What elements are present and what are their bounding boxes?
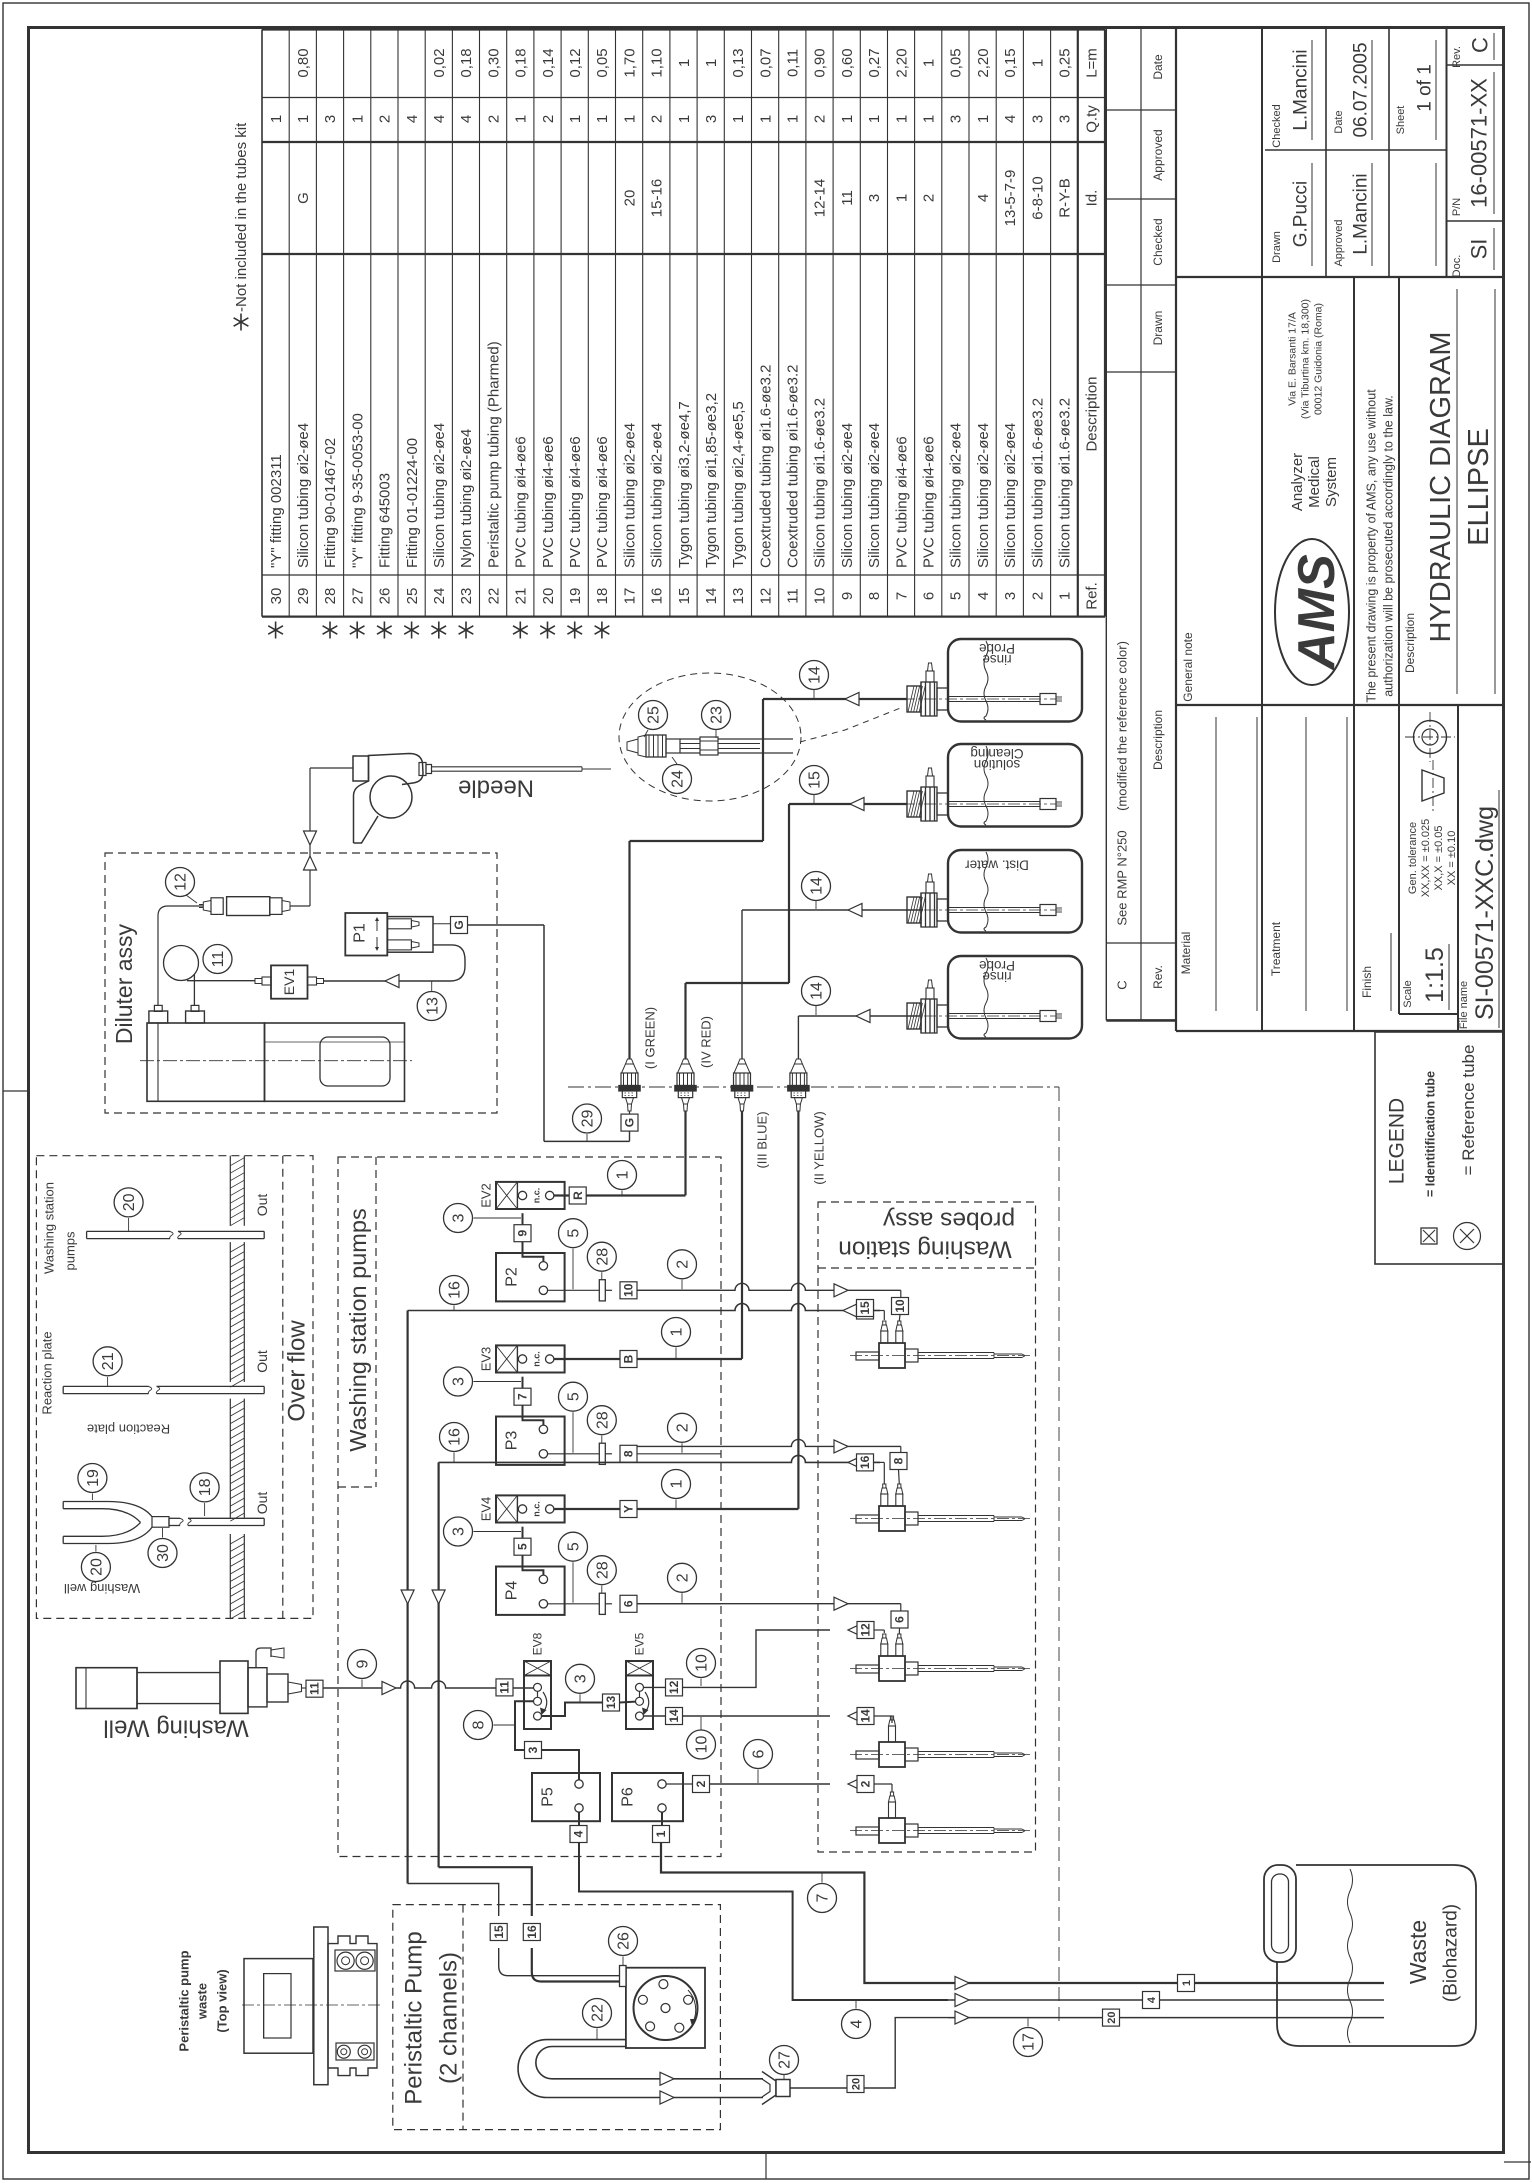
svg-text:6: 6 — [622, 1600, 636, 1607]
svg-text:Silicon tubing øi2-øe4: Silicon tubing øi2-øe4 — [431, 423, 448, 568]
svg-text:Scale: Scale — [1402, 980, 1414, 1008]
svg-text:2: 2 — [649, 115, 666, 123]
svg-text:18: 18 — [197, 1478, 214, 1496]
svg-text:2: 2 — [675, 1423, 692, 1432]
svg-text:0,15: 0,15 — [1002, 48, 1019, 77]
svg-text:PVC tubing øi4-øe6: PVC tubing øi4-øe6 — [594, 436, 611, 568]
svg-text:Silicon tubing øi2-øe4: Silicon tubing øi2-øe4 — [621, 423, 638, 568]
svg-text:28: 28 — [322, 588, 339, 605]
svg-text:00012 Guidonia (Roma): 00012 Guidonia (Roma) — [1313, 303, 1325, 415]
svg-text:Tygon tubing øi1,85-øe3,2: Tygon tubing øi1,85-øe3,2 — [703, 393, 720, 568]
svg-text:Silicon tubing øi2-øe4: Silicon tubing øi2-øe4 — [839, 423, 856, 568]
svg-text:Washing Well: Washing Well — [103, 1715, 248, 1742]
svg-text:General note: General note — [1181, 632, 1195, 702]
svg-text:20: 20 — [540, 588, 557, 605]
svg-text:Fitting 645003: Fitting 645003 — [377, 473, 394, 568]
svg-text:4: 4 — [572, 1830, 586, 1837]
svg-text:Silicon tubing øi2-øe4: Silicon tubing øi2-øe4 — [866, 423, 883, 568]
svg-text:26: 26 — [377, 588, 394, 605]
svg-text:21: 21 — [513, 588, 530, 605]
svg-text:n.c.: n.c. — [532, 1188, 542, 1204]
svg-text:12: 12 — [757, 588, 774, 605]
svg-text:(2 channels): (2 channels) — [435, 1952, 462, 2084]
svg-text:6: 6 — [893, 1616, 907, 1623]
svg-text:Id.: Id. — [1084, 190, 1101, 207]
svg-text:0,30: 0,30 — [485, 48, 502, 77]
svg-text:1: 1 — [654, 1830, 668, 1837]
svg-text:PVC tubing øi4-øe6: PVC tubing øi4-øe6 — [513, 436, 530, 568]
svg-text:rinse: rinse — [982, 652, 1011, 667]
svg-text:13-5-7-9: 13-5-7-9 — [1002, 170, 1019, 227]
svg-text:Silicon tubing øi2-øe4: Silicon tubing øi2-øe4 — [295, 423, 312, 568]
svg-text:10: 10 — [812, 588, 829, 605]
svg-text:Via E. Barsanti 17/A: Via E. Barsanti 17/A — [1287, 312, 1299, 406]
svg-text:30: 30 — [155, 1544, 172, 1562]
svg-text:20: 20 — [621, 190, 638, 207]
svg-text:2: 2 — [694, 1780, 708, 1787]
svg-text:1: 1 — [893, 115, 910, 123]
svg-text:"Y" fitting 002311: "Y" fitting 002311 — [268, 454, 285, 568]
svg-text:Fitting 90-01467-02: Fitting 90-01467-02 — [322, 438, 339, 568]
svg-text:(I GREEN): (I GREEN) — [643, 1007, 658, 1069]
svg-text:1: 1 — [513, 115, 530, 123]
svg-text:Coextruded tubing øi1.6-øe3.2: Coextruded tubing øi1.6-øe3.2 — [757, 365, 774, 568]
svg-text:29: 29 — [580, 1110, 597, 1128]
svg-text:1: 1 — [893, 194, 910, 202]
svg-text:(III BLUE): (III BLUE) — [755, 1111, 770, 1168]
svg-text:1: 1 — [757, 115, 774, 123]
svg-text:L=m: L=m — [1084, 48, 1101, 78]
svg-text:P5: P5 — [540, 1787, 557, 1807]
svg-text:Treatment: Treatment — [1269, 921, 1283, 976]
svg-text:Finish: Finish — [1360, 966, 1374, 998]
svg-text:10: 10 — [694, 1736, 711, 1754]
svg-text:0,80: 0,80 — [295, 48, 312, 77]
svg-text:1: 1 — [785, 115, 802, 123]
svg-text:Date: Date — [1333, 110, 1345, 133]
svg-text:(Biohazard): (Biohazard) — [1441, 1904, 1462, 2002]
svg-text:2,20: 2,20 — [893, 48, 910, 77]
svg-text:2: 2 — [540, 115, 557, 123]
svg-text:Gen. tolerance: Gen. tolerance — [1407, 822, 1419, 894]
svg-text:15: 15 — [492, 1925, 506, 1939]
svg-text:(IV RED): (IV RED) — [699, 1016, 714, 1068]
svg-text:Diluter assy: Diluter assy — [111, 923, 137, 1044]
svg-text:XX,XX = ±0.025: XX,XX = ±0.025 — [1420, 819, 1432, 898]
svg-text:1 of 1: 1 of 1 — [1415, 64, 1436, 112]
svg-text:P/N: P/N — [1451, 198, 1463, 216]
svg-text:Checked: Checked — [1151, 218, 1165, 265]
svg-text:Material: Material — [1179, 932, 1193, 975]
svg-text:Out: Out — [254, 1194, 270, 1217]
svg-text:1: 1 — [349, 115, 366, 123]
svg-text:2: 2 — [921, 194, 938, 202]
svg-text:XX = ±0.10: XX = ±0.10 — [1446, 831, 1458, 886]
svg-text:1: 1 — [975, 115, 992, 123]
svg-text:1: 1 — [621, 115, 638, 123]
svg-text:0,60: 0,60 — [839, 48, 856, 77]
svg-text:24: 24 — [431, 588, 448, 605]
svg-text:P3: P3 — [504, 1431, 521, 1451]
svg-text:2: 2 — [377, 115, 394, 123]
svg-text:1: 1 — [866, 115, 883, 123]
svg-text:Q.ty: Q.ty — [1084, 105, 1101, 133]
svg-text:14: 14 — [809, 877, 826, 895]
svg-text:L.Mancini: L.Mancini — [1351, 173, 1372, 254]
svg-text:1: 1 — [730, 115, 747, 123]
svg-text:13: 13 — [730, 588, 747, 605]
svg-text:3: 3 — [1002, 592, 1019, 600]
svg-text:= Reference tube: = Reference tube — [1459, 1045, 1478, 1176]
svg-text:Dist. water: Dist. water — [965, 857, 1029, 872]
svg-text:1:1.5: 1:1.5 — [1421, 947, 1449, 1003]
svg-text:20: 20 — [89, 1558, 106, 1576]
svg-text:6: 6 — [921, 592, 938, 600]
svg-text:3: 3 — [451, 1527, 468, 1536]
svg-text:0,25: 0,25 — [1057, 48, 1074, 77]
svg-text:0,18: 0,18 — [513, 48, 530, 77]
svg-text:PVC tubing øi4-øe6: PVC tubing øi4-øe6 — [540, 436, 557, 568]
svg-text:Needle: Needle — [458, 775, 534, 802]
svg-text:See RMP N°250: See RMP N°250 — [1115, 830, 1130, 925]
svg-text:17: 17 — [621, 588, 638, 605]
svg-text:14: 14 — [807, 666, 824, 684]
svg-text:L.Mancini: L.Mancini — [1291, 49, 1312, 130]
svg-text:P4: P4 — [504, 1581, 521, 1601]
svg-text:14: 14 — [667, 1709, 681, 1723]
svg-text:1: 1 — [295, 115, 312, 123]
svg-text:HYDRAULIC DIAGRAM: HYDRAULIC DIAGRAM — [1425, 332, 1457, 643]
svg-text:Y: Y — [622, 1505, 636, 1513]
svg-text:Approved: Approved — [1333, 219, 1345, 266]
svg-text:20: 20 — [850, 2078, 862, 2090]
svg-text:4: 4 — [1002, 115, 1019, 123]
svg-text:n.c.: n.c. — [532, 1501, 542, 1517]
svg-text:5: 5 — [566, 1542, 583, 1551]
svg-text:Silicon tubing øi2-øe4: Silicon tubing øi2-øe4 — [975, 423, 992, 568]
svg-text:AMS: AMS — [1288, 554, 1346, 672]
svg-text:14: 14 — [809, 982, 826, 1000]
svg-text:B: B — [622, 1354, 636, 1363]
svg-text:Ref.: Ref. — [1084, 582, 1101, 610]
svg-text:Nylon tubing øi2-øe4: Nylon tubing øi2-øe4 — [458, 429, 475, 568]
svg-text:3: 3 — [1029, 115, 1046, 123]
svg-text:authorization will be prosecut: authorization will be prosecuted accordi… — [1381, 395, 1395, 697]
svg-text:16: 16 — [858, 1455, 872, 1469]
svg-text:12: 12 — [859, 1623, 873, 1637]
svg-text:15: 15 — [807, 771, 824, 789]
svg-text:EV3: EV3 — [479, 1347, 494, 1372]
svg-text:1: 1 — [1181, 1980, 1193, 1986]
svg-text:1: 1 — [921, 115, 938, 123]
svg-text:12: 12 — [667, 1680, 681, 1694]
svg-text:5: 5 — [566, 1392, 583, 1401]
svg-text:25: 25 — [646, 706, 663, 724]
svg-text:10: 10 — [622, 1283, 636, 1297]
svg-text:Silicon tubing øi2-øe4: Silicon tubing øi2-øe4 — [948, 423, 965, 568]
svg-text:Washing station pumps: Washing station pumps — [345, 1208, 371, 1451]
svg-text:Tygon tubing øi2,4-øe5,5: Tygon tubing øi2,4-øe5,5 — [730, 401, 747, 568]
svg-text:13: 13 — [604, 1696, 618, 1710]
svg-text:4: 4 — [404, 115, 421, 123]
svg-text:27: 27 — [349, 588, 366, 605]
svg-text:(II YELLOW): (II YELLOW) — [812, 1111, 827, 1184]
svg-text:30: 30 — [268, 588, 285, 605]
svg-text:SI: SI — [1467, 239, 1492, 260]
svg-text:C: C — [1115, 980, 1130, 989]
svg-text:G.Pucci: G.Pucci — [1291, 181, 1312, 248]
svg-text:1: 1 — [567, 115, 584, 123]
svg-text:3: 3 — [322, 115, 339, 123]
svg-text:1: 1 — [676, 115, 693, 123]
svg-text:"Y" fitting 9-35-0053-00: "Y" fitting 9-35-0053-00 — [349, 413, 366, 568]
svg-text:C: C — [1468, 37, 1493, 53]
svg-text:Description: Description — [1151, 710, 1165, 770]
svg-text:The present drawing is propert: The present drawing is property of AMS, … — [1364, 389, 1378, 703]
svg-text:EV5: EV5 — [633, 1632, 647, 1655]
svg-text:Analyzer: Analyzer — [1289, 453, 1306, 511]
svg-text:1: 1 — [1057, 592, 1074, 600]
svg-text:4: 4 — [1146, 1996, 1158, 2003]
svg-text:3: 3 — [1057, 115, 1074, 123]
svg-text:EV2: EV2 — [479, 1183, 494, 1208]
svg-text:15: 15 — [676, 588, 693, 605]
svg-text:0,27: 0,27 — [866, 48, 883, 77]
svg-text:1: 1 — [703, 59, 720, 67]
svg-text:3: 3 — [451, 1213, 468, 1222]
svg-text:5: 5 — [948, 592, 965, 600]
svg-text:15-16: 15-16 — [649, 179, 666, 217]
svg-text:G: G — [623, 1118, 637, 1127]
svg-text:16-00571-XX: 16-00571-XX — [1467, 78, 1492, 208]
svg-text:R-Y-B: R-Y-B — [1057, 178, 1074, 217]
svg-text:3: 3 — [948, 115, 965, 123]
svg-text:26: 26 — [616, 1932, 633, 1950]
svg-text:0,13: 0,13 — [730, 48, 747, 77]
svg-text:14: 14 — [703, 588, 720, 605]
svg-text:27: 27 — [777, 2051, 794, 2069]
svg-text:Drawn: Drawn — [1271, 231, 1283, 263]
svg-text:11: 11 — [498, 1681, 512, 1694]
svg-text:Rev.: Rev. — [1151, 965, 1165, 989]
svg-text:P6: P6 — [620, 1787, 637, 1807]
svg-text:14: 14 — [859, 1709, 873, 1723]
svg-text:R: R — [571, 1191, 585, 1200]
svg-text:15: 15 — [858, 1301, 872, 1315]
svg-text:11: 11 — [839, 190, 856, 206]
svg-text:System: System — [1323, 457, 1340, 507]
svg-text:P2: P2 — [504, 1267, 521, 1287]
svg-text:G: G — [452, 920, 466, 929]
svg-text:Silicon tubing øi2-øe4: Silicon tubing øi2-øe4 — [1002, 423, 1019, 568]
svg-text:1: 1 — [1029, 59, 1046, 67]
svg-text:16: 16 — [447, 1428, 464, 1446]
svg-text:1,10: 1,10 — [649, 48, 666, 77]
svg-text:Approved: Approved — [1151, 129, 1165, 180]
svg-text:waste: waste — [195, 1983, 210, 2020]
svg-text:1: 1 — [669, 1327, 686, 1336]
svg-text:18: 18 — [594, 588, 611, 605]
svg-text:Rev.: Rev. — [1451, 46, 1463, 68]
svg-text:9: 9 — [516, 1230, 530, 1237]
svg-text:8: 8 — [892, 1457, 906, 1464]
svg-text:16: 16 — [447, 1281, 464, 1299]
svg-text:PVC tubing øi4-øe6: PVC tubing øi4-øe6 — [921, 436, 938, 568]
svg-text:XX,X = ±0.05: XX,X = ±0.05 — [1433, 825, 1445, 890]
svg-text:5: 5 — [566, 1229, 583, 1238]
svg-text:Peristaltic Pump: Peristaltic Pump — [400, 1931, 427, 2104]
svg-text:0,14: 0,14 — [540, 48, 557, 77]
svg-text:6-8-10: 6-8-10 — [1029, 176, 1046, 219]
svg-text:9: 9 — [355, 1659, 372, 1668]
svg-text:Out: Out — [254, 1350, 270, 1373]
svg-text:4: 4 — [458, 115, 475, 123]
svg-text:probes assy: probes assy — [882, 1206, 1015, 1233]
svg-text:19: 19 — [567, 588, 584, 605]
svg-text:Washing station: Washing station — [838, 1235, 1011, 1262]
svg-text:Doc.: Doc. — [1451, 255, 1463, 278]
svg-text:Reaction plate: Reaction plate — [87, 1422, 170, 1437]
svg-text:1: 1 — [268, 115, 285, 123]
svg-text:06.07.2005: 06.07.2005 — [1351, 42, 1372, 137]
svg-text:7: 7 — [815, 1893, 832, 1902]
svg-text:0,05: 0,05 — [594, 48, 611, 77]
svg-text:ELLIPSE: ELLIPSE — [1463, 428, 1495, 546]
svg-text:25: 25 — [404, 588, 421, 605]
svg-text:3: 3 — [703, 115, 720, 123]
svg-text:Description: Description — [1084, 376, 1101, 451]
svg-text:PVC tubing øi4-øe6: PVC tubing øi4-øe6 — [567, 436, 584, 568]
svg-text:8: 8 — [471, 1720, 488, 1729]
svg-text:8: 8 — [866, 592, 883, 600]
svg-text:Out: Out — [254, 1492, 270, 1515]
svg-text:0,11: 0,11 — [785, 49, 802, 77]
svg-text:5: 5 — [516, 1543, 530, 1550]
svg-text:Silicon tubing øi1.6-øe3.2: Silicon tubing øi1.6-øe3.2 — [1029, 398, 1046, 568]
svg-text:(modified the reference color): (modified the reference color) — [1115, 641, 1130, 811]
svg-text:3: 3 — [866, 194, 883, 202]
svg-text:= Identitification tube: = Identitification tube — [1423, 1071, 1437, 1197]
svg-text:7: 7 — [516, 1393, 530, 1400]
svg-text:0,18: 0,18 — [458, 48, 475, 77]
svg-text:2,20: 2,20 — [975, 48, 992, 77]
svg-text:Reaction plate: Reaction plate — [40, 1331, 55, 1414]
svg-text:22: 22 — [590, 2004, 607, 2022]
svg-text:17: 17 — [1021, 2033, 1038, 2051]
svg-text:1: 1 — [594, 115, 611, 123]
svg-text:File name: File name — [1458, 981, 1470, 1029]
svg-text:12: 12 — [173, 873, 190, 891]
svg-text:Date: Date — [1151, 54, 1165, 80]
svg-text:Washing station: Washing station — [42, 1182, 57, 1274]
svg-text:pumps: pumps — [63, 1231, 78, 1271]
svg-text:16: 16 — [649, 588, 666, 605]
svg-text:PVC tubing øi4-øe6: PVC tubing øi4-øe6 — [893, 436, 910, 568]
svg-text:Checked: Checked — [1271, 104, 1283, 147]
svg-text:(Via Tiburtina km. 18,300): (Via Tiburtina km. 18,300) — [1300, 299, 1312, 419]
svg-text:19: 19 — [85, 1469, 102, 1487]
svg-text:4: 4 — [431, 115, 448, 123]
svg-text:1: 1 — [669, 1479, 686, 1488]
svg-text:0,07: 0,07 — [757, 48, 774, 77]
svg-text:16: 16 — [525, 1925, 539, 1939]
svg-text:2: 2 — [485, 115, 502, 123]
svg-text:G: G — [295, 192, 312, 204]
svg-text:2: 2 — [675, 1260, 692, 1269]
svg-text:Tygon tubing øi3,2-øe4,7: Tygon tubing øi3,2-øe4,7 — [676, 401, 693, 568]
svg-text:29: 29 — [295, 588, 312, 605]
svg-text:2: 2 — [859, 1780, 873, 1787]
svg-text:Coextruded tubing øi1.6-øe3.2: Coextruded tubing øi1.6-øe3.2 — [785, 365, 802, 568]
svg-text:solution: solution — [974, 757, 1021, 772]
svg-text:Over flow: Over flow — [283, 1320, 310, 1422]
svg-text:22: 22 — [485, 588, 502, 605]
svg-text:0,12: 0,12 — [567, 48, 584, 77]
svg-text:0,05: 0,05 — [948, 48, 965, 77]
svg-text:12-14: 12-14 — [812, 179, 829, 217]
svg-text:SI-00571-XXC.dwg: SI-00571-XXC.dwg — [1471, 806, 1499, 1020]
svg-text:4: 4 — [975, 592, 992, 600]
svg-text:0,90: 0,90 — [812, 48, 829, 77]
svg-text:Waste: Waste — [1405, 1920, 1431, 1984]
svg-text:Silicon tubing øi2-øe4: Silicon tubing øi2-øe4 — [649, 423, 666, 568]
svg-text:2: 2 — [675, 1573, 692, 1582]
svg-text:20: 20 — [1106, 2011, 1118, 2023]
svg-text:Washing well: Washing well — [64, 1581, 140, 1596]
svg-text:20: 20 — [121, 1193, 138, 1211]
svg-text:7: 7 — [893, 592, 910, 600]
svg-text:8: 8 — [622, 1450, 636, 1457]
svg-text:Drawn: Drawn — [1151, 311, 1165, 346]
svg-text:13: 13 — [424, 997, 441, 1015]
svg-text:24: 24 — [670, 770, 687, 788]
svg-text:10: 10 — [893, 1299, 907, 1313]
svg-text:11: 11 — [785, 588, 802, 604]
svg-text:3: 3 — [526, 1746, 540, 1753]
svg-text:Description: Description — [1403, 613, 1417, 673]
svg-text:11: 11 — [308, 1682, 322, 1695]
svg-text:P1: P1 — [352, 923, 369, 943]
svg-text:28: 28 — [594, 1248, 611, 1266]
svg-text:0,02: 0,02 — [431, 48, 448, 77]
svg-text:21: 21 — [100, 1352, 117, 1370]
svg-text:EV1: EV1 — [281, 969, 297, 996]
svg-text:6: 6 — [751, 1749, 768, 1758]
svg-text:Fitting 01-01224-00: Fitting 01-01224-00 — [404, 438, 421, 568]
svg-text:1: 1 — [921, 59, 938, 67]
svg-text:Peristaltic pump: Peristaltic pump — [177, 1950, 192, 2051]
svg-text:2: 2 — [812, 115, 829, 123]
svg-text:Peristaltic pump tubing (Pharm: Peristaltic pump tubing (Pharmed) — [485, 341, 502, 568]
svg-text:Silicon tubing øi1.6-øe3.2: Silicon tubing øi1.6-øe3.2 — [812, 398, 829, 568]
svg-text:n.c.: n.c. — [532, 1351, 542, 1367]
svg-text:2: 2 — [1029, 592, 1046, 600]
svg-text:Medical: Medical — [1306, 456, 1323, 508]
svg-text:EV8: EV8 — [531, 1632, 545, 1655]
svg-text:LEGEND: LEGEND — [1385, 1098, 1408, 1184]
svg-text:1,70: 1,70 — [621, 48, 638, 77]
svg-text:rinse: rinse — [982, 969, 1011, 984]
svg-text:9: 9 — [839, 592, 856, 600]
svg-text:EV4: EV4 — [479, 1497, 494, 1522]
svg-text:23: 23 — [458, 588, 475, 605]
svg-text:23: 23 — [709, 706, 726, 724]
svg-text:1: 1 — [676, 59, 693, 67]
svg-text:Silicon tubing øi1.6-øe3.2: Silicon tubing øi1.6-øe3.2 — [1057, 398, 1074, 568]
svg-text:4: 4 — [849, 2019, 866, 2028]
svg-text:-Not included in the tubes kit: -Not included in the tubes kit — [233, 122, 250, 312]
svg-text:(Top view): (Top view) — [215, 1969, 230, 2032]
